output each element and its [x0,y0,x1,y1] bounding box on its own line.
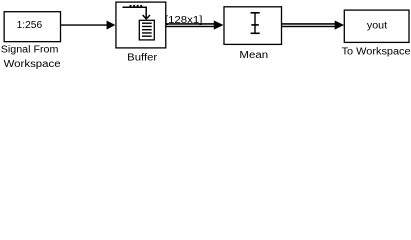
block To Workspace [344,10,409,42]
svg-text:[128x1]: [128x1] [165,15,203,26]
frame wire Buffer to Mean (double line) [166,23,215,25]
svg-text:Mean: Mean [239,50,268,61]
svg-text:1:256: 1:256 [17,20,43,31]
block Buffer [116,2,166,48]
block Mean [224,7,282,45]
wire from Signal From Workspace to Buffer [61,24,108,25]
frame wire Mean to To Workspace (double line) [281,23,335,25]
svg-text:Signal From: Signal From [1,45,59,56]
Buffer icon: drop line [145,7,147,18]
Buffer icon: ticks [130,5,132,7]
svg-text:To Workspace: To Workspace [342,47,411,58]
arrowhead into Buffer [107,21,116,30]
Buffer icon: sample stream line [123,6,147,8]
block Signal From Workspace [4,12,60,42]
Mean icon: top bar [251,12,260,14]
Mean icon: vertical line [254,12,255,34]
Buffer icon: buffer box [139,20,154,40]
Buffer icon: stored sample bars [142,23,152,24]
svg-text:yout: yout [367,21,387,32]
Buffer icon: down arrow chevron [143,15,150,19]
svg-text:Workspace: Workspace [4,59,61,69]
arrowhead into To Workspace [335,21,344,30]
Mean icon: bottom bar [251,33,260,35]
Mean icon: middle bar [251,24,258,26]
svg-text:Buffer: Buffer [127,53,158,64]
arrowhead into Mean [214,21,224,30]
